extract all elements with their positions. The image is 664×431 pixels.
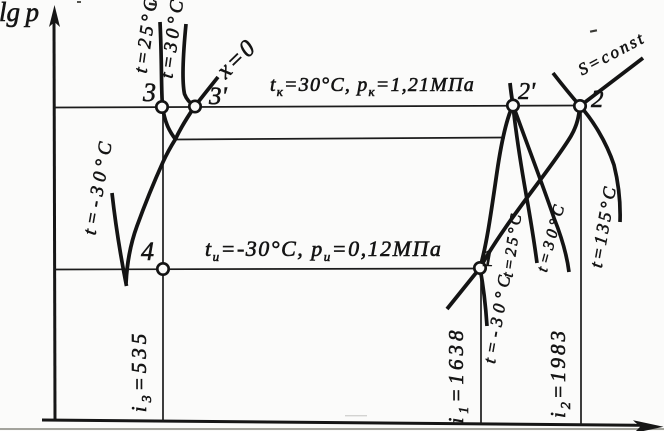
vapor isotherm t=30C [513, 105, 569, 272]
svg-text:3': 3' [208, 83, 228, 110]
saturation curve x=0 [126, 77, 218, 283]
point 4 [157, 263, 168, 274]
vapor isotherm t=25C [513, 106, 537, 263]
svg-text:tи=-30°C, pи=0,12МПа: tи=-30°C, pи=0,12МПа [205, 236, 442, 264]
liquid isotherm t=-30C [112, 193, 127, 286]
liquid isotherm t=30C [183, 24, 195, 106]
liquid isotherm t=25C [160, 22, 176, 140]
scan bottom edge [0, 428, 664, 430]
svg-text:2: 2 [591, 86, 604, 113]
point 3' [189, 101, 200, 112]
point 1 [474, 262, 485, 273]
svg-text:2': 2' [518, 79, 536, 105]
evaporator pressure line pi [54, 269, 480, 270]
scan speckles [149, 2, 157, 6]
point 2' [507, 100, 518, 111]
i2 vertical line [580, 107, 582, 425]
x-axis [42, 420, 664, 431]
vapor isotherm t=135C [553, 73, 620, 222]
25C saturation pressure construction line [175, 138, 505, 140]
svg-text:1: 1 [482, 245, 495, 272]
saturation curve x=1 [447, 83, 513, 309]
svg-text:4: 4 [141, 237, 154, 266]
i1 vertical line [480, 268, 482, 424]
condenser pressure line pk [54, 106, 580, 108]
vapor isotherm t=-30C below point 1 [480, 268, 487, 326]
isentrope S=const through 1-2 [480, 58, 643, 268]
point 3 [156, 101, 167, 112]
y-axis [49, 5, 60, 421]
svg-text:lg p: lg p [0, 0, 39, 27]
i3 vertical line [162, 107, 164, 422]
point 2 [574, 100, 585, 111]
svg-text:3: 3 [142, 78, 156, 107]
